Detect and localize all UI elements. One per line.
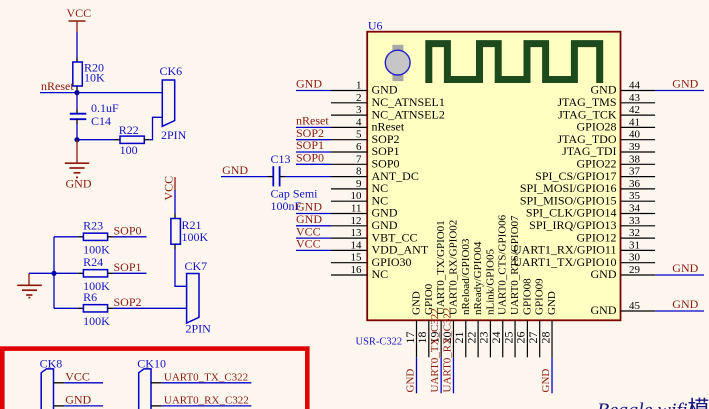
svg-text:4: 4 <box>356 116 362 128</box>
ground (middle-left) <box>17 273 42 297</box>
junction <box>74 90 79 95</box>
antenna meander <box>429 44 600 83</box>
svg-text:GND: GND <box>405 369 417 393</box>
wire CK8 pin1 <box>54 382 65 384</box>
svg-text:43: 43 <box>629 92 641 104</box>
pin 39 (JTAG_TDI) <box>562 141 655 158</box>
pin 12 (GND) <box>331 215 398 232</box>
pin 7 (SOP0) <box>331 153 400 170</box>
capacitor C13 <box>268 152 318 213</box>
pin 4 (nReset) <box>331 116 405 133</box>
svg-text:29: 29 <box>629 264 641 276</box>
svg-text:R6: R6 <box>83 290 97 304</box>
svg-text:36: 36 <box>629 178 641 190</box>
pin 5 (SOP2) <box>331 129 400 146</box>
pin 9 (NC) <box>331 178 388 195</box>
resistor R6 <box>78 290 113 328</box>
svg-text:USR-C322: USR-C322 <box>356 337 403 348</box>
svg-text:40: 40 <box>629 129 641 141</box>
svg-text:32: 32 <box>629 227 640 239</box>
pin 45 (GND) <box>591 300 656 317</box>
svg-text:U6: U6 <box>368 18 383 32</box>
svg-text:2: 2 <box>356 92 362 104</box>
svg-text:C14: C14 <box>91 114 111 128</box>
svg-text:GND: GND <box>66 177 92 191</box>
pin 15 (GPIO30) <box>331 252 412 269</box>
resistor R21 <box>171 214 209 250</box>
svg-text:33: 33 <box>629 215 641 227</box>
red highlight box <box>2 349 307 409</box>
junction <box>51 271 56 276</box>
svg-text:41: 41 <box>629 116 640 128</box>
svg-text:30: 30 <box>629 252 641 264</box>
svg-text:GPIO08: GPIO08 <box>521 278 533 315</box>
connector CK6 <box>160 64 187 142</box>
wire R22 to CK6 pin2 <box>150 117 163 139</box>
svg-text:VCC: VCC <box>67 6 92 20</box>
pin 22 (nReady/GPIO04) <box>464 241 484 357</box>
pin 17 (GND) <box>403 291 423 357</box>
pin 29 (GND) <box>591 264 656 281</box>
pin 41 (GPIO28) <box>576 116 655 133</box>
wire <box>54 236 78 238</box>
pin 6 (SOP1) <box>331 141 400 158</box>
svg-text:2PIN: 2PIN <box>186 322 212 336</box>
pin 42 (JTAG_TCK) <box>558 104 655 121</box>
pin 25 (UART0_RTS/GPIO07) <box>501 215 521 357</box>
svg-text:SOP0: SOP0 <box>114 223 142 237</box>
capacitor C14 <box>70 101 119 128</box>
wire <box>221 176 268 178</box>
wire <box>296 213 331 215</box>
pin 11 (GND) <box>331 203 398 220</box>
svg-text:GND: GND <box>411 291 423 315</box>
svg-text:15: 15 <box>351 252 363 264</box>
svg-text:10: 10 <box>351 190 363 202</box>
svg-text:8: 8 <box>356 166 362 178</box>
wire <box>113 236 146 238</box>
pin 19 (UART0_TX/GPIO01) <box>427 220 447 357</box>
svg-text:38: 38 <box>629 153 641 165</box>
svg-text:nReady/GPIO04: nReady/GPIO04 <box>472 241 484 315</box>
pin 44 (GND) <box>591 80 656 97</box>
svg-text:GND: GND <box>672 77 698 91</box>
resistor R23 <box>78 218 113 256</box>
pin 40 (JTAG_TDO) <box>557 129 655 146</box>
pin 43 (JTAG_TMS) <box>557 92 655 109</box>
svg-text:VCC: VCC <box>162 176 176 201</box>
svg-text:31: 31 <box>629 239 640 251</box>
svg-text:39: 39 <box>629 141 641 153</box>
svg-text:37: 37 <box>629 166 641 178</box>
pin 34 (SPI_CLK/GPIO14) <box>526 203 655 220</box>
wire <box>551 357 553 393</box>
antenna feed (grey rect + circle) <box>385 45 410 81</box>
svg-text:R23: R23 <box>83 218 103 232</box>
pin 27 (GPIO09) <box>526 278 546 357</box>
svg-text:5: 5 <box>356 129 362 141</box>
svg-text:28: 28 <box>538 332 552 344</box>
wire <box>296 139 331 141</box>
connector CK7 <box>185 259 212 336</box>
svg-text:42: 42 <box>629 104 640 116</box>
wire <box>76 32 78 58</box>
svg-text:C13: C13 <box>271 152 291 166</box>
svg-text:1: 1 <box>356 80 362 92</box>
svg-text:7: 7 <box>356 153 362 165</box>
svg-text:GPIO09: GPIO09 <box>534 278 546 315</box>
wire <box>296 126 331 128</box>
svg-text:GND: GND <box>540 369 552 393</box>
pin 14 (VDD_ANT) <box>331 239 429 256</box>
wire R21 to CK7 pin1 <box>175 249 187 286</box>
svg-text:R24: R24 <box>83 255 103 269</box>
wire <box>54 272 78 274</box>
resistor R24 <box>78 255 113 293</box>
svg-text:6: 6 <box>356 141 362 153</box>
power VCC (rotated, above R21) <box>162 176 176 201</box>
resistor R20 <box>73 58 105 91</box>
wire CK8 pin2 <box>54 405 65 407</box>
wire bus vertical <box>53 237 55 308</box>
svg-text:GND: GND <box>222 163 248 177</box>
wire <box>296 90 331 92</box>
pin 1 (GND) <box>331 80 398 97</box>
svg-text:GND: GND <box>591 267 617 281</box>
svg-text:16: 16 <box>351 264 363 276</box>
pin 10 (NC) <box>331 190 388 207</box>
ground (top-left) <box>65 140 92 191</box>
pin 23 (nLink/GPIO05) <box>477 249 497 358</box>
pin 16 (NC) <box>331 264 388 281</box>
svg-text:45: 45 <box>629 300 641 312</box>
svg-text:GND: GND <box>591 303 617 317</box>
wire to R22 <box>77 139 115 141</box>
svg-text:100K: 100K <box>182 230 209 244</box>
svg-text:VCC: VCC <box>65 369 90 383</box>
svg-text:35: 35 <box>629 190 641 202</box>
svg-text:3: 3 <box>356 104 362 116</box>
wire <box>296 237 331 239</box>
svg-text:GND: GND <box>672 261 698 275</box>
connector CK8 <box>40 357 63 409</box>
svg-text:12: 12 <box>351 215 362 227</box>
svg-text:SOP2: SOP2 <box>114 295 142 309</box>
svg-text:CK7: CK7 <box>185 259 208 273</box>
pin 26 (GPIO08) <box>514 278 534 357</box>
svg-text:SOP0: SOP0 <box>296 151 324 165</box>
pin 3 (NC_ATNSEL2) <box>331 104 445 121</box>
wire <box>416 357 418 393</box>
pin 20 (UART0_RX/GPIO02) <box>440 220 460 358</box>
svg-text:10K: 10K <box>84 71 105 85</box>
wire <box>113 272 146 274</box>
wire <box>76 124 78 140</box>
wire <box>76 93 78 109</box>
svg-text:GND: GND <box>546 291 558 315</box>
wire nReset to CK6 <box>40 92 162 94</box>
pin 37 (SPI_CS/GPIO17) <box>535 166 655 183</box>
pin 33 (SPI_IRQ/GPIO13) <box>529 215 655 232</box>
svg-text:nReload/GPIO03: nReload/GPIO03 <box>460 238 472 315</box>
svg-text:UART0_RX/GPIO02: UART0_RX/GPIO02 <box>447 220 459 315</box>
pin 8 (ANT_DC) <box>331 166 419 183</box>
junction <box>74 137 79 142</box>
wire <box>54 307 78 309</box>
svg-text:VCC: VCC <box>296 237 321 251</box>
wire <box>655 310 704 312</box>
pin 18 (GPIO0) <box>415 283 435 357</box>
svg-text:2PIN: 2PIN <box>161 128 187 142</box>
pin 31 (UART1_RX/GPIO11) <box>513 239 655 256</box>
wire <box>440 357 442 393</box>
power VCC (top-left) <box>67 6 92 32</box>
wire <box>296 225 331 227</box>
pin 38 (GPIO22) <box>576 153 655 170</box>
svg-text:UART0_TX/GPIO01: UART0_TX/GPIO01 <box>435 220 447 315</box>
svg-text:100: 100 <box>120 143 138 157</box>
IC U6 body <box>367 18 620 320</box>
pin 21 (nReload/GPIO03) <box>452 238 472 357</box>
pin 13 (VBT_CC) <box>331 227 418 244</box>
pin 30 (UART1_TX/GPIO10) <box>513 252 655 269</box>
wire <box>296 163 331 165</box>
wire <box>113 307 187 309</box>
svg-text:11: 11 <box>351 203 362 215</box>
svg-text:13: 13 <box>351 227 363 239</box>
pin 32 (GPIO12) <box>576 227 655 244</box>
svg-text:UART0_TX_C322: UART0_TX_C322 <box>429 308 441 392</box>
wire gnd to bus <box>29 272 54 274</box>
svg-text:44: 44 <box>629 80 641 92</box>
svg-text:nLink/GPIO05: nLink/GPIO05 <box>484 249 496 316</box>
svg-text:GND: GND <box>65 392 91 406</box>
svg-text:100K: 100K <box>83 314 110 328</box>
pin 24 (UART0_CTS/GPIO06) <box>489 214 509 357</box>
svg-text:UART0_CTS/GPIO06: UART0_CTS/GPIO06 <box>497 214 509 315</box>
svg-text:nReset: nReset <box>41 79 74 93</box>
svg-text:NC: NC <box>372 267 389 281</box>
svg-text:GND: GND <box>296 77 322 91</box>
resistor R22 <box>115 123 150 157</box>
connector CK10 <box>137 357 166 409</box>
svg-text:R22: R22 <box>119 123 139 137</box>
svg-text:0.1uF: 0.1uF <box>91 101 119 115</box>
wire CK10 pin1 <box>151 382 162 384</box>
svg-text:GND: GND <box>672 297 698 311</box>
wire <box>452 357 454 393</box>
wire CK10 pin2 <box>151 405 162 407</box>
svg-text:UART0_RX_C322: UART0_RX_C322 <box>164 394 249 406</box>
wire <box>174 190 176 214</box>
svg-text:14: 14 <box>351 239 363 251</box>
pin 36 (SPI_MOSI/GPIO16) <box>520 178 655 195</box>
pin 28 (GND) <box>538 291 558 357</box>
svg-text:UART0_RX_C322: UART0_RX_C322 <box>441 308 453 393</box>
svg-text:SOP1: SOP1 <box>114 260 142 274</box>
pin 35 (SPI_MISO/GPIO15) <box>520 190 655 207</box>
wire <box>655 274 704 276</box>
svg-text:UART0_RTS/GPIO07: UART0_RTS/GPIO07 <box>509 215 521 315</box>
svg-text:CK6: CK6 <box>160 64 183 78</box>
wire <box>296 151 331 153</box>
pin 2 (NC_ATNSEL1) <box>331 92 445 109</box>
svg-text:34: 34 <box>629 203 641 215</box>
wire C13 to pin8 <box>285 176 331 178</box>
svg-text:9: 9 <box>356 178 362 190</box>
wire <box>296 249 331 251</box>
wire <box>655 90 704 92</box>
svg-text:UART0_TX_C322: UART0_TX_C322 <box>164 371 248 383</box>
